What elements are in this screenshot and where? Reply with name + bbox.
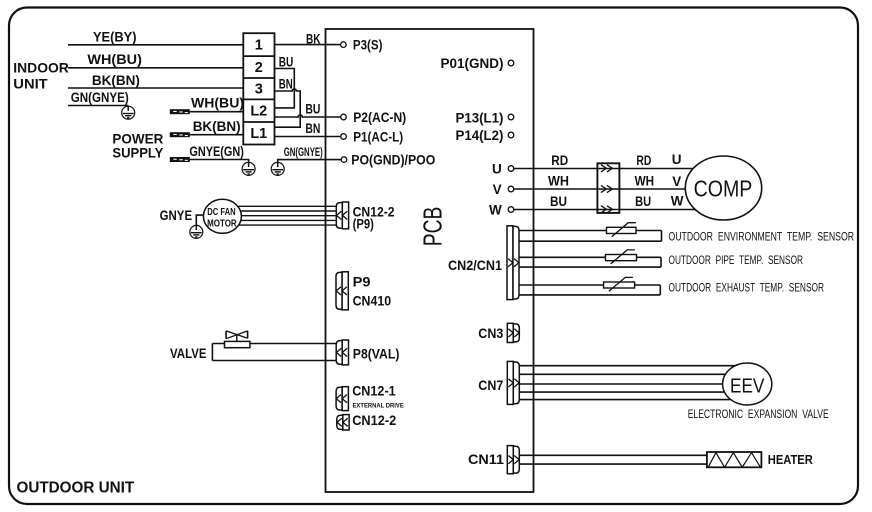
svg-text:EEV: EEV xyxy=(730,375,765,398)
heater element xyxy=(707,452,762,467)
power lead BK(BN) end xyxy=(170,132,190,137)
svg-text:EXTERNAL DRIVE: EXTERNAL DRIVE xyxy=(353,402,405,409)
label WH left xyxy=(548,174,569,189)
label V wire xyxy=(672,174,681,189)
terminal 1 label xyxy=(255,38,263,54)
wire BK terminal1 to P3 xyxy=(275,44,341,46)
fan motor wire 5 xyxy=(228,224,336,226)
electronic expansion valve EEV xyxy=(723,363,772,405)
fan motor wire 1 xyxy=(228,205,336,207)
svg-text:CN3: CN3 xyxy=(478,326,503,341)
svg-text:WH: WH xyxy=(548,174,569,189)
label CN12-2 (P9) line1 xyxy=(353,204,395,219)
label pipe sensor xyxy=(669,253,804,267)
wire BU loop terminal2 to L2 xyxy=(275,69,295,108)
label WH(BU) power xyxy=(191,96,244,111)
label BU to P2 xyxy=(305,102,320,117)
wire valve top xyxy=(212,343,336,345)
wire V phase to COMP xyxy=(514,188,700,190)
svg-text:CN410: CN410 xyxy=(353,294,392,309)
svg-text:U: U xyxy=(672,152,682,167)
label CN12-2 (P9) line2 xyxy=(353,216,374,231)
svg-text:ELECTRONIC EXPANSION VALVE: ELECTRONIC EXPANSION VALVE xyxy=(688,407,829,421)
pin V xyxy=(493,182,514,197)
valve symbol xyxy=(226,331,248,342)
svg-text:WH(BU): WH(BU) xyxy=(87,52,141,67)
wire EEV 3 xyxy=(519,383,748,385)
svg-text:GNYE(GN): GNYE(GN) xyxy=(189,144,244,159)
svg-text:PO(GND)/POO: PO(GND)/POO xyxy=(351,153,435,168)
label GNYE motor xyxy=(160,208,193,223)
svg-text:CN7: CN7 xyxy=(478,378,503,393)
label UNIT xyxy=(13,75,48,91)
svg-text:DC FAN: DC FAN xyxy=(207,207,235,218)
label BK(BN) indoor xyxy=(92,73,140,88)
wire GNYE(GN) power to ground xyxy=(190,160,249,163)
label SUPPLY xyxy=(112,144,164,160)
pin P01(GND) xyxy=(441,56,514,71)
svg-text:BU: BU xyxy=(279,54,294,69)
label CN2/CN1 xyxy=(448,258,502,273)
svg-text:W: W xyxy=(489,202,502,217)
svg-text:SUPPLY: SUPPLY xyxy=(112,144,164,160)
fan motor wire 2 xyxy=(228,210,336,212)
label W wire xyxy=(671,193,684,208)
label CN12-1 xyxy=(352,383,396,398)
svg-text:BN: BN xyxy=(279,76,293,91)
svg-text:GN(GNYE): GN(GNYE) xyxy=(284,145,323,159)
label WH(BU) indoor xyxy=(87,52,141,67)
label GNYE(GN) xyxy=(189,144,244,159)
thermistor exhaust xyxy=(604,277,635,291)
wire PO(GND) to ground GN(GNYE) xyxy=(278,160,342,163)
label CN12-2 bottom xyxy=(352,413,396,428)
svg-text:1: 1 xyxy=(255,38,263,54)
wire YE(BY) indoor to terminal 1 xyxy=(68,44,243,46)
connector CN2/CN1 xyxy=(507,226,519,300)
label OUTDOOR UNIT xyxy=(17,479,135,496)
connector CN7 xyxy=(507,361,519,404)
wire valve left xyxy=(211,344,213,361)
wire heater 2 xyxy=(519,463,707,465)
svg-text:P01(GND): P01(GND) xyxy=(441,56,504,71)
label WH right xyxy=(635,174,655,189)
wire EEV 2 xyxy=(519,373,747,375)
terminal L1 label xyxy=(250,126,267,142)
label electronic expansion valve xyxy=(688,407,829,421)
fan motor wire 4 xyxy=(228,219,336,221)
PCB label xyxy=(418,207,448,247)
thermistor environment xyxy=(607,223,637,237)
pin P13(L1) xyxy=(456,110,514,125)
outdoor pipe temp sensor body xyxy=(519,257,661,267)
svg-text:P2(AC-N): P2(AC-N) xyxy=(353,110,406,125)
ground pcb GN(GNYE) xyxy=(271,162,284,176)
outdoor environment temp sensor body xyxy=(519,231,662,242)
svg-text:V: V xyxy=(672,174,681,189)
label BN loop xyxy=(279,76,293,91)
power lead WH(BU) end xyxy=(170,109,190,114)
label CN3 xyxy=(478,326,503,341)
svg-text:BU: BU xyxy=(635,194,651,209)
connector CN12-2 (P9) xyxy=(336,202,348,229)
wire W phase to COMP xyxy=(514,209,700,211)
label RD left xyxy=(551,153,568,168)
svg-text:GNYE: GNYE xyxy=(160,208,193,223)
valve body xyxy=(225,341,250,347)
svg-text:P1(AC-L): P1(AC-L) xyxy=(353,130,403,145)
fan motor wire 3 xyxy=(228,215,336,217)
svg-text:CN12-2: CN12-2 xyxy=(352,413,396,428)
terminal block xyxy=(243,33,274,144)
svg-text:HEATER: HEATER xyxy=(768,452,814,467)
pin P2(AC-N) xyxy=(341,110,407,125)
pin P14(L2) xyxy=(456,128,514,143)
pin P3(S) xyxy=(341,38,383,53)
wire EEV 1 xyxy=(519,365,745,367)
wire BK(BN) power to L1 xyxy=(190,134,244,136)
label BK(BN) power xyxy=(193,119,241,134)
label BU left xyxy=(550,194,567,209)
connector CN12-1 xyxy=(336,387,348,411)
label GN(GNYE) indoor xyxy=(71,90,129,105)
svg-text:UNIT: UNIT xyxy=(13,75,48,91)
power lead GNYE(GN) end xyxy=(170,157,190,162)
svg-text:WH: WH xyxy=(635,174,655,189)
svg-text:BN: BN xyxy=(305,121,320,136)
label VALVE xyxy=(170,345,207,361)
wire GN(GNYE) indoor to ground xyxy=(68,105,128,107)
terminal 2 label xyxy=(255,60,263,76)
wire BU L2 to P2 with hop xyxy=(275,115,341,117)
wire valve bottom xyxy=(212,360,336,362)
label BU right xyxy=(635,194,651,209)
label U wire xyxy=(672,152,682,167)
svg-text:OUTDOOR EXHAUST TEMP. SENSOR: OUTDOOR EXHAUST TEMP. SENSOR xyxy=(669,281,825,295)
label P8(VAL) xyxy=(353,346,400,361)
pin PO(GND)/POO xyxy=(341,153,435,168)
wire EEV 4 xyxy=(519,391,747,393)
wire U phase to COMP xyxy=(514,168,700,170)
label YE(BY) xyxy=(93,30,137,45)
wire WH(BU) power to L2 xyxy=(190,111,244,113)
pin W xyxy=(489,202,514,217)
label CN410 xyxy=(353,294,392,309)
pin P1(AC-L) xyxy=(341,130,404,145)
svg-text:PCB: PCB xyxy=(418,207,448,247)
svg-text:P3(S): P3(S) xyxy=(353,38,383,53)
label EXTERNAL DRIVE xyxy=(353,402,405,409)
connector CN11 xyxy=(507,446,519,474)
svg-text:P14(L2): P14(L2) xyxy=(456,128,504,143)
label BK xyxy=(306,31,321,46)
ground indoor unit xyxy=(122,106,135,120)
label P9 xyxy=(353,275,371,290)
label CN7 xyxy=(478,378,503,393)
svg-text:YE(BY): YE(BY) xyxy=(93,30,137,45)
outdoor exhaust temp sensor body xyxy=(519,285,660,295)
connector CN3 xyxy=(507,323,519,342)
svg-text:OUTDOOR UNIT: OUTDOOR UNIT xyxy=(17,479,135,496)
svg-text:BU: BU xyxy=(550,194,567,209)
svg-text:RD: RD xyxy=(551,153,568,168)
label CN11 xyxy=(468,452,505,467)
compressor plug connector xyxy=(597,163,619,213)
svg-text:CN12-1: CN12-1 xyxy=(352,383,396,398)
label exhaust sensor xyxy=(669,281,825,295)
svg-text:BK(BN): BK(BN) xyxy=(193,119,241,134)
svg-text:V: V xyxy=(493,182,502,197)
svg-text:VALVE: VALVE xyxy=(170,345,207,361)
dc fan motor xyxy=(203,199,241,233)
svg-text:CN11: CN11 xyxy=(468,452,505,467)
wire motor ground xyxy=(196,215,204,225)
compressor COMP xyxy=(685,156,761,220)
svg-text:2: 2 xyxy=(255,60,263,76)
svg-text:P8(VAL): P8(VAL) xyxy=(353,346,400,361)
label BN to P1 xyxy=(305,121,320,136)
thermistor pipe xyxy=(606,250,637,264)
pin U xyxy=(492,162,514,177)
wire BN loop terminal3 to L1 with hop xyxy=(275,89,301,127)
svg-text:L2: L2 xyxy=(250,104,267,120)
svg-text:INDOOR: INDOOR xyxy=(13,60,69,76)
svg-text:(P9): (P9) xyxy=(353,216,374,231)
svg-text:L1: L1 xyxy=(250,126,267,142)
svg-text:BK(BN): BK(BN) xyxy=(92,73,140,88)
svg-text:BK: BK xyxy=(306,31,321,46)
svg-text:COMP: COMP xyxy=(694,176,753,202)
wire BN L1 to P1 xyxy=(275,136,341,138)
svg-text:P9: P9 xyxy=(353,275,371,290)
ground power supply xyxy=(242,162,255,176)
svg-text:3: 3 xyxy=(255,82,263,98)
label HEATER xyxy=(768,452,814,467)
svg-text:CN2/CN1: CN2/CN1 xyxy=(448,258,502,273)
terminal 3 label xyxy=(255,82,263,98)
svg-text:GN(GNYE): GN(GNYE) xyxy=(71,90,129,105)
label RD right xyxy=(636,153,651,168)
connector CN12-2 bottom xyxy=(337,415,349,430)
svg-text:U: U xyxy=(492,162,502,177)
wire BK(BN) indoor to terminal 3 xyxy=(68,87,243,89)
svg-text:W: W xyxy=(671,193,684,208)
wire WH(BU) indoor to terminal 2 xyxy=(68,67,243,69)
terminal L2 label xyxy=(250,104,267,120)
label POWER xyxy=(112,131,163,147)
label BU loop xyxy=(279,54,294,69)
wire heater 1 xyxy=(519,454,707,456)
svg-text:OUTDOOR PIPE TEMP. SENSOR: OUTDOOR PIPE TEMP. SENSOR xyxy=(669,253,804,267)
PCB board outline xyxy=(326,29,534,492)
connector P9/CN410 xyxy=(336,272,348,310)
svg-text:MOTOR: MOTOR xyxy=(207,219,237,230)
svg-text:BU: BU xyxy=(305,102,320,117)
connector P8(VAL) xyxy=(336,340,348,365)
svg-text:WH(BU): WH(BU) xyxy=(191,96,244,111)
svg-text:P13(L1): P13(L1) xyxy=(456,110,504,125)
wire EEV 5 xyxy=(519,399,745,401)
label environment sensor xyxy=(669,229,855,243)
svg-text:RD: RD xyxy=(636,153,651,168)
label GN(GNYE) pcb ground xyxy=(284,145,323,159)
label INDOOR xyxy=(13,60,69,76)
ground dc fan motor xyxy=(190,225,203,239)
svg-text:OUTDOOR ENVIRONMENT TEMP. SENS: OUTDOOR ENVIRONMENT TEMP. SENSOR xyxy=(669,229,855,243)
